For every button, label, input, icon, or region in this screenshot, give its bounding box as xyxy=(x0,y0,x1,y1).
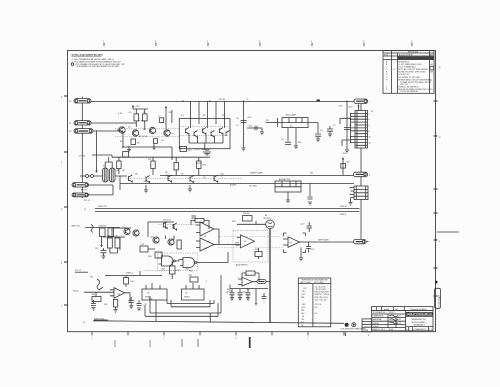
svg-text:U9: U9 xyxy=(185,293,187,295)
svg-text:U3: U3 xyxy=(290,242,292,244)
svg-text:OF ASSEMBLY IS THE UNIT ANNEX: OF ASSEMBLY IS THE UNIT ANNEX NOTED PER xyxy=(76,65,120,68)
svg-text:Q23: Q23 xyxy=(302,294,306,296)
svg-text:+15V: +15V xyxy=(300,223,305,225)
transistor Q22 xyxy=(153,237,159,243)
svg-text:DIMENSION: DIMENSION xyxy=(373,316,384,318)
svg-text:ACW BOARD—: ACW BOARD— xyxy=(412,321,428,324)
resistor R47 xyxy=(255,252,262,257)
title bottom row xyxy=(406,327,434,331)
one-shot U7 box xyxy=(142,289,167,300)
svg-text:W5 GRN: W5 GRN xyxy=(249,185,257,187)
resistor R3b xyxy=(154,139,158,144)
right vertical xyxy=(171,110,173,123)
component box above bus xyxy=(123,152,129,158)
wire from J1-B xyxy=(91,122,136,124)
svg-text:Q1: Q1 xyxy=(128,126,131,128)
attenuator box A1A3 xyxy=(275,181,301,192)
svg-text:R28 R29: R28 R29 xyxy=(99,226,106,228)
ground U3 xyxy=(299,247,303,260)
relay K1 coil b xyxy=(110,168,116,182)
svg-text:C27: C27 xyxy=(144,304,147,306)
svg-text:SWEEPER TU—: SWEEPER TU— xyxy=(412,319,429,321)
svg-text:U6: U6 xyxy=(204,248,206,250)
svg-text:13: 13 xyxy=(371,111,373,113)
svg-text:R23: R23 xyxy=(203,164,206,166)
svg-text:R8: R8 xyxy=(203,115,205,117)
svg-text:SWP: SWP xyxy=(235,242,240,244)
junction dot swp xyxy=(269,287,270,288)
svg-text:R60: R60 xyxy=(301,310,304,312)
svg-text:C7: C7 xyxy=(333,125,335,127)
svg-text:SWP B: SWP B xyxy=(340,214,347,216)
connector tab J2-A xyxy=(72,183,89,187)
svg-text:MOTOR: MOTOR xyxy=(264,218,272,220)
cap at attenuator right xyxy=(309,184,311,197)
svg-text:R22: R22 xyxy=(166,175,169,177)
op-amp U6A xyxy=(200,222,214,236)
svg-text:R9: R9 xyxy=(222,115,224,117)
bottom collect wire xyxy=(122,147,172,160)
ground array xyxy=(203,150,211,155)
svg-text:P/O J2: P/O J2 xyxy=(84,200,90,202)
resistor R40 xyxy=(155,252,162,258)
long wire row B lower xyxy=(120,183,354,185)
one-shot U9 box xyxy=(182,289,205,300)
svg-text:R47: R47 xyxy=(255,249,258,251)
HP logo disc xyxy=(406,312,410,316)
capacitor C32 xyxy=(262,293,267,299)
svg-text:7: 7 xyxy=(91,338,92,340)
wires from J2 tabs xyxy=(89,185,114,195)
svg-text:AL: AL xyxy=(430,79,432,82)
svg-text:HEWLETT·PACKARD CO.: HEWLETT·PACKARD CO. xyxy=(407,313,433,316)
drafting symbol box xyxy=(352,323,356,327)
gate link wires xyxy=(179,252,228,263)
wire bias feed xyxy=(92,155,210,157)
transistor Q8 xyxy=(220,128,223,135)
svg-text:R12: R12 xyxy=(298,142,301,144)
transistor Q12 xyxy=(168,175,172,182)
svg-text:9-69: 9-69 xyxy=(397,323,401,325)
svg-text:C5: C5 xyxy=(281,139,283,141)
svg-text:REFERENCE DESIGNATIONS: REFERENCE DESIGNATIONS xyxy=(301,279,328,282)
svg-text:B1: B1 xyxy=(290,126,292,128)
svg-text:W3: W3 xyxy=(310,173,313,175)
svg-text:SWEEP RAMP: SWEEP RAMP xyxy=(250,172,264,175)
resistor R1 xyxy=(134,114,139,121)
svg-text:JM: JM xyxy=(430,64,433,66)
svg-text:W4: W4 xyxy=(90,277,93,279)
svg-text:B1: B1 xyxy=(302,319,304,321)
svg-text:TOLERANCES ±: TOLERANCES ± xyxy=(373,311,387,314)
+15V arrow left xyxy=(132,106,134,109)
svg-text:6: 6 xyxy=(155,41,156,43)
svg-text:P/O J1: P/O J1 xyxy=(75,270,81,272)
transistor Q5 xyxy=(194,131,197,138)
resistor R42 xyxy=(177,240,181,249)
corner marks box U3 xyxy=(284,233,306,253)
capacitor C3 box xyxy=(159,118,163,123)
dashed bias line a xyxy=(115,128,180,130)
svg-text:+15V F1: +15V F1 xyxy=(218,99,225,101)
revision table xyxy=(383,51,434,94)
feedback resistor U6 xyxy=(195,219,204,223)
svg-text:C21: C21 xyxy=(311,249,314,251)
svg-text:10: 10 xyxy=(369,137,371,139)
+5V arrow xyxy=(358,106,360,110)
ground xyxy=(127,146,131,152)
wire cluster B xyxy=(115,176,127,190)
svg-text:A1A1 LAMP: A1A1 LAMP xyxy=(286,114,297,117)
wire out left pin 11 xyxy=(342,140,351,146)
transistor Q3 xyxy=(164,130,170,136)
op-amp U8 xyxy=(114,288,125,299)
svg-text:R40: R40 xyxy=(148,256,151,258)
wire stub right xyxy=(247,126,262,132)
svg-text:Q16 Q17: Q16 Q17 xyxy=(163,220,171,222)
svg-text:A-2741 SCHEM: A-2741 SCHEM xyxy=(399,53,413,56)
svg-text:CR6: CR6 xyxy=(302,304,306,306)
relay K1 coil a xyxy=(103,168,109,182)
ground 3 xyxy=(152,143,156,149)
svg-text:Q8: Q8 xyxy=(165,172,168,174)
svg-text:J4: J4 xyxy=(301,325,303,327)
module bottom drops xyxy=(288,128,296,146)
svg-text:6: 6 xyxy=(369,125,370,127)
transistor Q4 xyxy=(186,128,189,135)
svg-text:R11: R11 xyxy=(249,126,252,128)
bottom zone ticks xyxy=(92,332,344,336)
junction dot bus c xyxy=(243,100,244,101)
svg-text:P3: P3 xyxy=(69,131,71,133)
black mark right border xyxy=(435,281,437,284)
title block main xyxy=(372,311,433,331)
svg-text:Q22: Q22 xyxy=(150,236,154,238)
svg-text:LAST USED: LAST USED xyxy=(300,281,311,284)
svg-text:C32: C32 xyxy=(303,288,306,290)
resistor R30 xyxy=(108,238,113,248)
long wire SWP A xyxy=(95,208,360,210)
svg-text:SEE REV LTR IN SERIES BLOCK: SEE REV LTR IN SERIES BLOCK xyxy=(398,58,428,60)
svg-text:+15V: +15V xyxy=(247,117,252,119)
svg-text:C21, 26,: C21, 26, xyxy=(315,304,323,306)
ground Q13 xyxy=(188,185,192,192)
svg-text:U10: U10 xyxy=(246,289,249,291)
resistor R49 xyxy=(92,297,101,302)
svg-text:R23: R23 xyxy=(197,163,200,165)
module right wire xyxy=(308,123,318,133)
connector tab J1-C xyxy=(74,129,93,134)
motor wire left xyxy=(237,221,266,224)
resistor R22 xyxy=(174,162,178,170)
pin stubs J3 xyxy=(351,188,355,198)
ground C14 xyxy=(102,256,106,259)
svg-text:C30: C30 xyxy=(228,291,231,293)
ground module xyxy=(294,146,298,149)
wire out left pin 3 xyxy=(340,118,351,124)
lamp module A1A1 box xyxy=(282,118,308,128)
svg-text:R21: R21 xyxy=(148,159,151,161)
left zone ticks xyxy=(64,96,68,305)
svg-text:CR7: CR7 xyxy=(302,291,306,293)
junction dot bus a xyxy=(182,100,183,101)
dark header row xyxy=(398,56,430,59)
op-amp U3 output wire xyxy=(300,241,354,243)
transistor Q6 xyxy=(203,128,206,135)
svg-text:R6: R6 xyxy=(120,141,122,143)
resistor R51 xyxy=(114,300,118,308)
capacitor C7 xyxy=(327,126,333,134)
svg-text:R30: R30 xyxy=(107,235,110,237)
transistor Q9 xyxy=(226,131,229,137)
ground mid xyxy=(242,148,246,151)
svg-text:C6: C6 xyxy=(320,130,322,132)
grounds C30 C31 xyxy=(230,298,250,301)
svg-text:SM(+): SM(+) xyxy=(73,291,79,293)
mid vertical +15 rail xyxy=(346,101,348,150)
ground C25 xyxy=(129,306,133,309)
svg-text:REVISIONS: REVISIONS xyxy=(408,52,419,54)
svg-text:SWP DRIVE: SWP DRIVE xyxy=(318,240,329,242)
svg-text:1: 1 xyxy=(369,102,370,104)
transistor array box xyxy=(179,119,230,149)
ground Q11 xyxy=(144,185,148,193)
svg-text:A1A3 ATTEN: A1A3 ATTEN xyxy=(279,178,291,181)
small table model xyxy=(362,319,372,332)
cap at left bottom xyxy=(91,300,96,305)
transistor Q10 xyxy=(129,175,133,182)
svg-text:1:1: 1:1 xyxy=(429,329,432,331)
svg-text:CR1: CR1 xyxy=(143,181,147,183)
svg-text:W2: W2 xyxy=(266,120,269,122)
svg-text:U8: U8 xyxy=(118,294,120,296)
svg-text:Q23: Q23 xyxy=(302,307,306,309)
IC U5 outline xyxy=(158,253,198,271)
svg-text:A7 CL4 R: A7 CL4 R xyxy=(139,135,148,138)
connector tab J2-B xyxy=(72,193,89,197)
svg-text:2. FULL CAPACITORS ARE IN MICR: 2. FULL CAPACITORS ARE IN MICROFARADS, R… xyxy=(72,60,122,63)
ground R51 xyxy=(114,307,118,312)
svg-text:A1A2 SERVO: A1A2 SERVO xyxy=(236,263,248,266)
svg-text:R61: R61 xyxy=(301,297,304,299)
svg-text:Q8: Q8 xyxy=(315,307,318,309)
bottom long wire xyxy=(93,321,344,324)
main vertical bus xyxy=(360,104,362,240)
revision table header rows xyxy=(383,53,434,60)
relay contact circles xyxy=(86,175,89,178)
tick below title xyxy=(345,332,347,336)
op-amp U6B xyxy=(200,238,214,251)
array drop wires xyxy=(191,101,225,128)
svg-text:ASSEMBLY: ASSEMBLY xyxy=(414,324,426,327)
svg-text:4: 4 xyxy=(259,41,260,43)
registration dashes bottom xyxy=(114,340,116,347)
svg-text:SHEET 1 OF 1: SHEET 1 OF 1 xyxy=(373,329,386,331)
connector spine J1 xyxy=(81,97,83,199)
relay top wires xyxy=(105,157,112,168)
pin stubs left with dots xyxy=(351,113,356,142)
svg-text:J4: J4 xyxy=(83,322,85,324)
wire U8 out vertical xyxy=(129,293,131,303)
svg-text:3: 3 xyxy=(311,41,312,43)
motor drive line thick xyxy=(269,229,271,323)
gate U5B xyxy=(183,258,195,268)
resistor bus drops xyxy=(119,157,199,175)
svg-text:C1: C1 xyxy=(246,99,248,101)
svg-text:Q3: Q3 xyxy=(161,140,164,142)
svg-text:C3: C3 xyxy=(171,133,173,135)
vertical to Q4 xyxy=(165,110,167,129)
vertical tab stub xyxy=(435,288,441,308)
wire from J1-C xyxy=(93,130,123,132)
svg-text:R49: R49 xyxy=(92,294,95,296)
connector tab XA2 label xyxy=(354,172,368,177)
connector tab XA1 label xyxy=(354,99,368,104)
resistor R31 xyxy=(115,238,120,248)
ground stub xyxy=(260,132,264,135)
ground J3 xyxy=(349,198,353,206)
transistor Q2 xyxy=(132,130,138,136)
U7 pin wires xyxy=(146,283,160,321)
svg-text:U2: U2 xyxy=(315,313,317,315)
svg-text:R55: R55 xyxy=(189,275,192,277)
reference designations table xyxy=(298,278,331,327)
svg-text:.01: .01 xyxy=(236,125,239,127)
long wire row B upper xyxy=(160,175,354,177)
svg-text:12: 12 xyxy=(369,142,371,144)
svg-text:SCALE —: SCALE — xyxy=(373,325,382,328)
op-amp U10 xyxy=(242,277,253,286)
wire resistor drops xyxy=(133,109,148,130)
transistor Q2b xyxy=(149,127,155,133)
attenuator pins xyxy=(286,192,290,203)
dashed bias line b xyxy=(115,136,180,138)
svg-text:FINISH: FINISH xyxy=(373,323,380,325)
svg-text:U2: U2 xyxy=(244,241,246,243)
svg-text:A3: A3 xyxy=(117,169,119,172)
svg-text:+15V: +15V xyxy=(135,106,140,108)
transistor Q13 xyxy=(190,176,194,183)
svg-text:SYM: SYM xyxy=(384,54,389,56)
svg-text:NOT USED: NOT USED xyxy=(314,282,324,284)
op-amp U3 xyxy=(288,237,300,248)
title block left rows xyxy=(372,314,406,328)
svg-text:1: 1 xyxy=(411,41,412,43)
svg-text:C15: C15 xyxy=(141,244,144,246)
svg-text:Q9: Q9 xyxy=(181,174,184,176)
transistor Q14 xyxy=(214,175,218,182)
border frame xyxy=(68,51,436,332)
gate U5A xyxy=(162,256,174,266)
svg-text:B1: B1 xyxy=(265,215,267,217)
svg-text:+15V: +15V xyxy=(338,106,343,108)
resistor R55 xyxy=(190,277,198,282)
transistor Q21 xyxy=(133,230,139,236)
svg-text:R52: R52 xyxy=(149,298,152,300)
moved-wire squiggle xyxy=(97,279,103,290)
svg-text:2740A-66502-1: 2740A-66502-1 xyxy=(413,328,426,331)
svg-text:Q20: Q20 xyxy=(122,227,126,229)
svg-text:P2: P2 xyxy=(69,123,71,125)
capacitor C14 xyxy=(101,248,107,256)
svg-text:K1: K1 xyxy=(302,316,304,318)
svg-text:2740A-66502: 2740A-66502 xyxy=(437,294,440,307)
svg-text:BLANK: BLANK xyxy=(230,184,237,187)
capacitor C21 xyxy=(306,242,311,253)
svg-text:+15V F2: +15V F2 xyxy=(78,156,85,158)
svg-text:2: 2 xyxy=(369,113,370,115)
svg-text:7: 7 xyxy=(103,41,104,43)
capacitor C4 xyxy=(241,120,247,122)
right zone ticks xyxy=(434,101,438,296)
svg-text:R4: R4 xyxy=(129,112,131,114)
pin header J2 block xyxy=(355,111,368,149)
svg-text:SWP(+): SWP(+) xyxy=(126,272,133,274)
svg-text:2: 2 xyxy=(363,41,364,43)
array emitter bus xyxy=(189,135,223,151)
ground C6 xyxy=(316,139,320,142)
svg-text:+15V: +15V xyxy=(348,107,353,109)
junction dot bus d xyxy=(346,100,347,101)
wire mid drop xyxy=(243,101,245,148)
resistor R10 xyxy=(180,147,187,152)
drafting symbol disc xyxy=(345,323,349,327)
ground rail xyxy=(345,150,349,153)
capacitor C31b xyxy=(246,293,251,298)
transistor Q11 xyxy=(146,176,150,183)
svg-text:Q6: Q6 xyxy=(122,170,125,172)
svg-text:Q14 ,Q16, Q17: Q14 ,Q16, Q17 xyxy=(315,299,328,301)
svg-text:C31: C31 xyxy=(225,292,228,294)
capacitor C5 xyxy=(285,142,291,144)
capacitor C30 xyxy=(230,293,235,298)
array inner dashed line b xyxy=(181,135,230,137)
wire tab3 drop xyxy=(96,131,98,171)
inline tab TP2 xyxy=(257,280,266,284)
wire into module xyxy=(266,122,282,124)
svg-text:3: 3 xyxy=(369,175,370,177)
svg-text:C32: C32 xyxy=(242,292,245,294)
svg-text:R53: R53 xyxy=(177,270,180,272)
+15V arrow right xyxy=(165,107,167,110)
resistor R2 xyxy=(143,114,148,121)
bracket left of module xyxy=(277,118,279,127)
U9 pin wires xyxy=(186,283,199,289)
svg-text:5: 5 xyxy=(207,41,208,43)
signature squiggle 1 xyxy=(390,315,398,317)
svg-text:R44: R44 xyxy=(232,221,235,223)
svg-text:C4: C4 xyxy=(236,118,238,120)
small rects pair xyxy=(164,222,168,229)
svg-text:J2: J2 xyxy=(84,209,86,211)
HP company name xyxy=(406,312,433,315)
svg-text:2: 2 xyxy=(307,338,308,340)
arrow down test point xyxy=(255,296,257,303)
nested loop wires xyxy=(145,296,221,316)
junction dot rowB xyxy=(269,241,270,242)
svg-text:Q2-Q7 MATCHED: Q2-Q7 MATCHED xyxy=(195,148,211,151)
dashed bias row B xyxy=(125,178,242,180)
svg-text:Q8: Q8 xyxy=(135,174,138,176)
wire vertical left cluster xyxy=(122,131,124,148)
top zone ticks xyxy=(104,43,412,46)
svg-text:C8: C8 xyxy=(349,125,351,127)
svg-text:8: 8 xyxy=(369,131,370,133)
wire top bus xyxy=(91,101,354,103)
svg-text:Q9: Q9 xyxy=(203,177,206,179)
wire SM xyxy=(84,292,114,296)
connector tab XA3 label xyxy=(354,239,367,243)
